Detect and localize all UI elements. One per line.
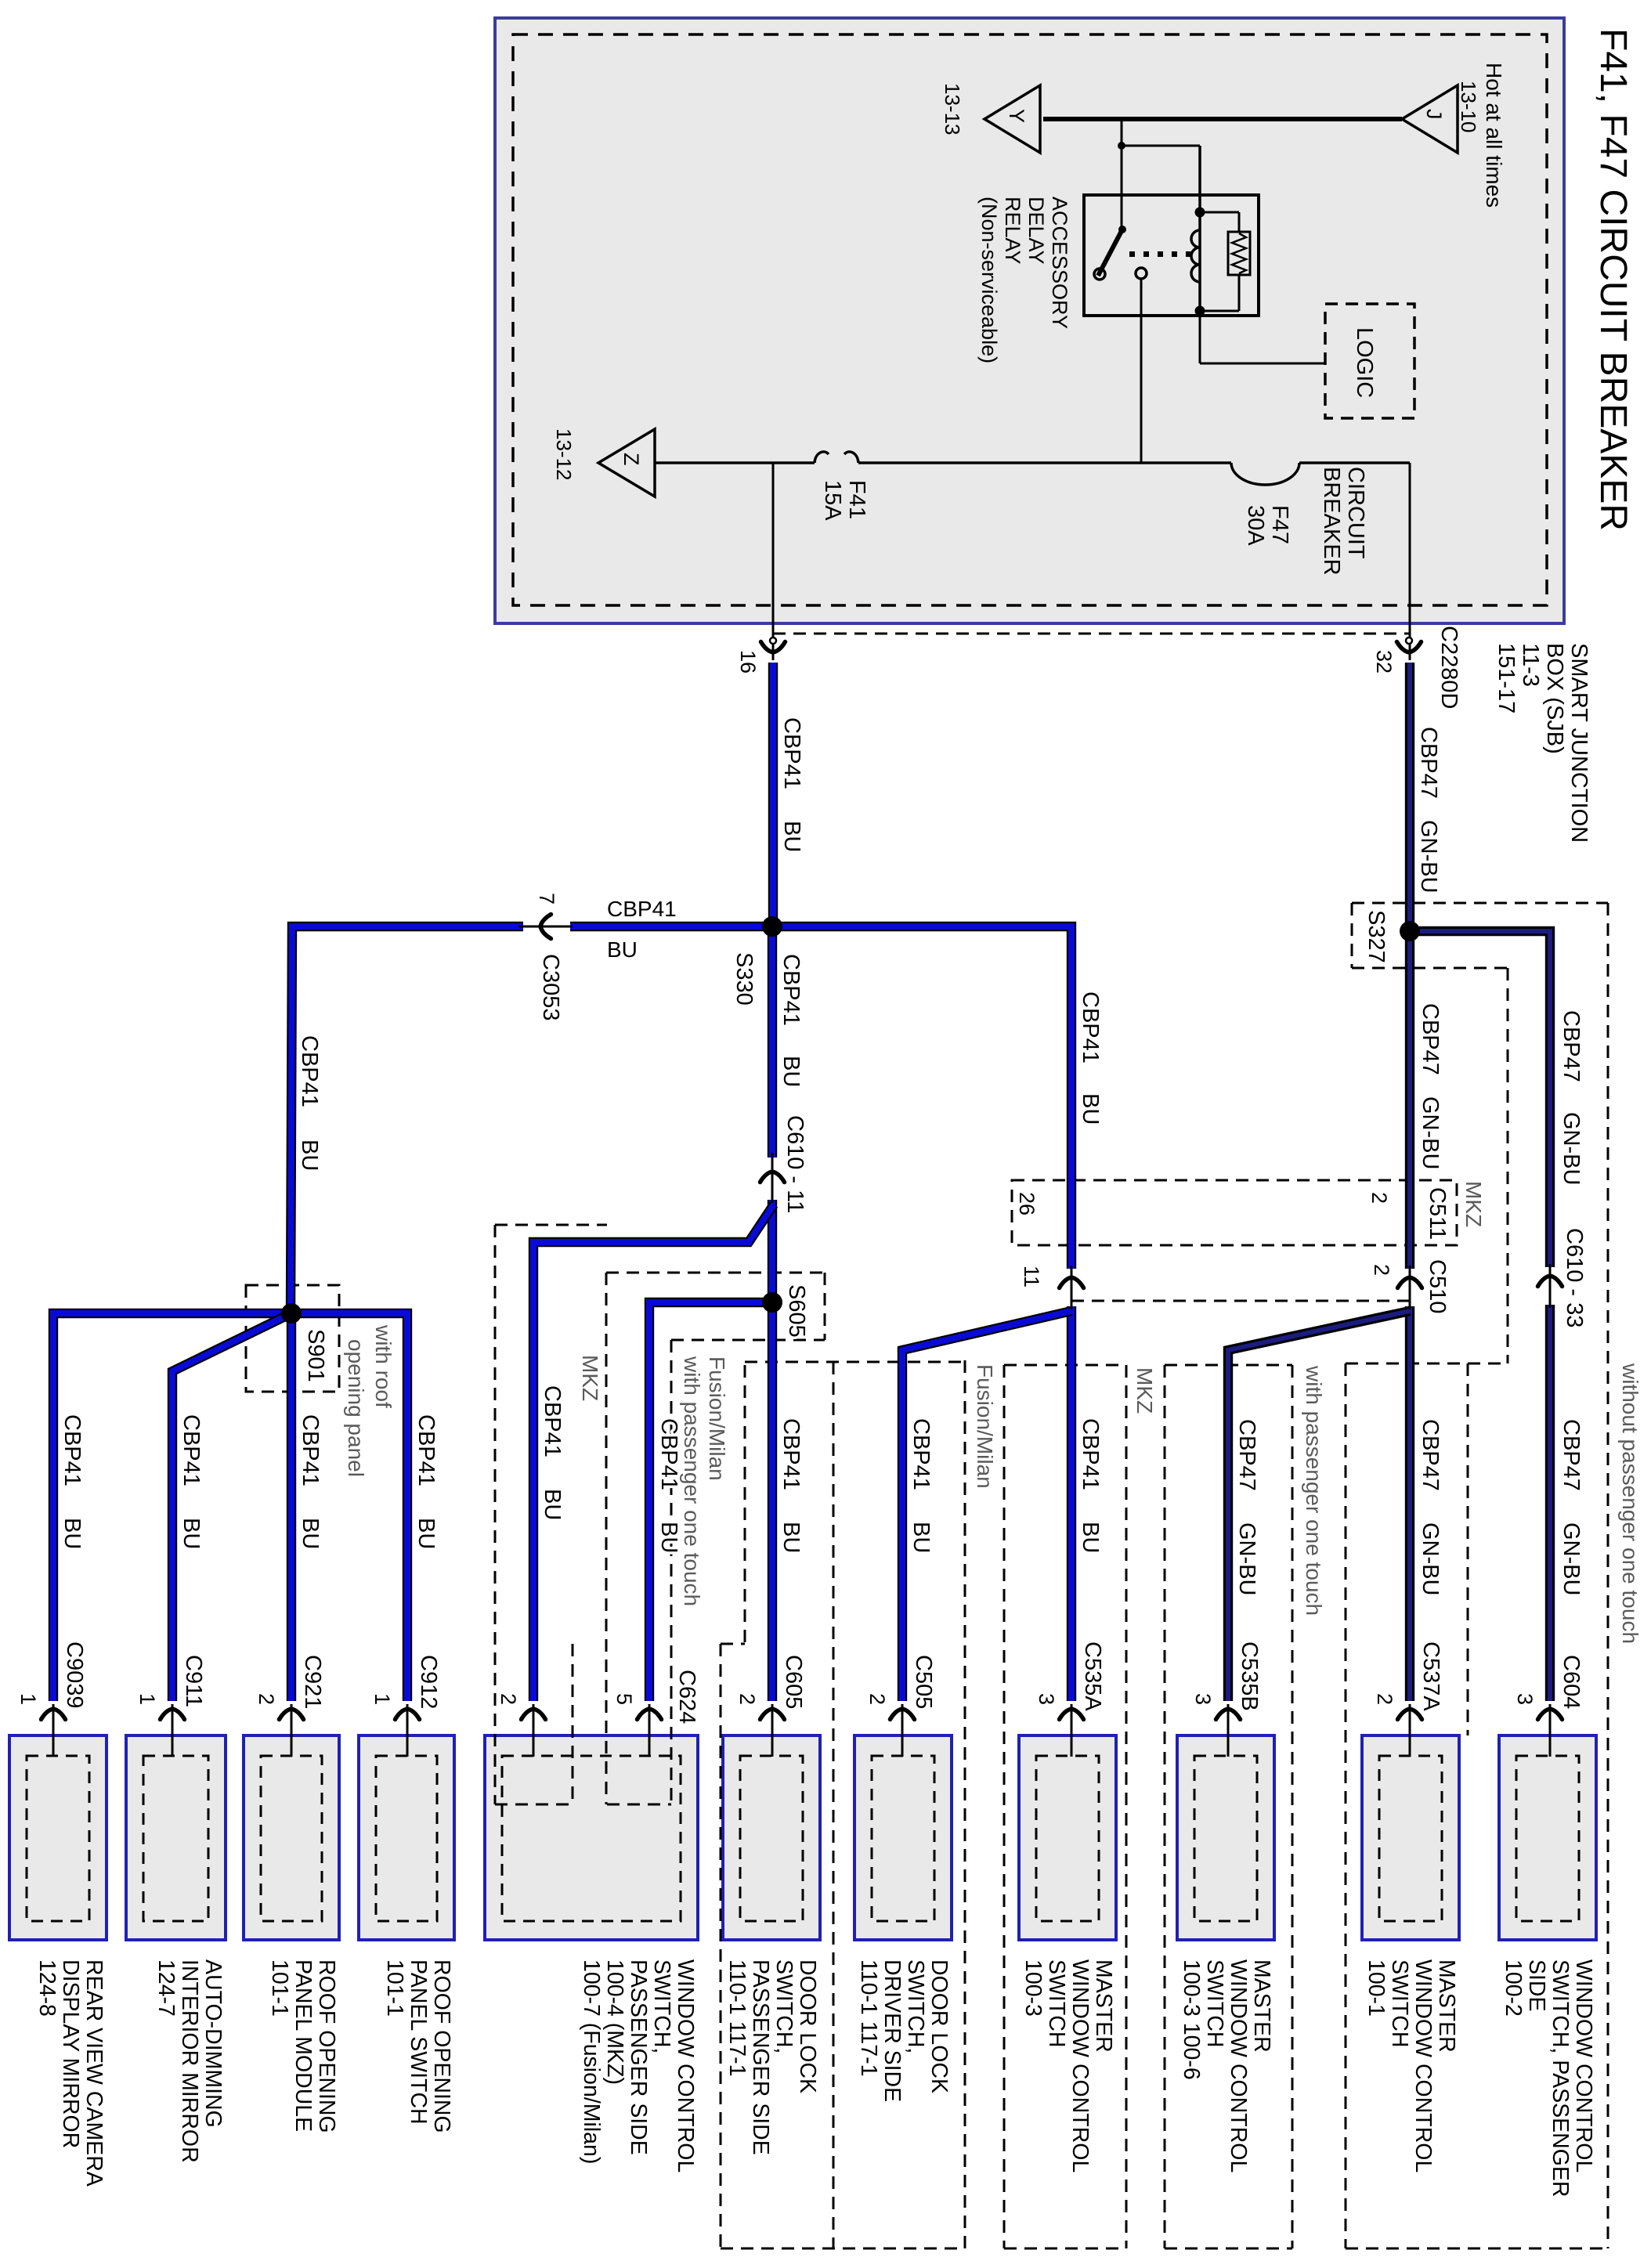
svg-text:26: 26 xyxy=(1015,1192,1039,1215)
svg-text:S330: S330 xyxy=(732,952,757,1006)
svg-text:GN-BU: GN-BU xyxy=(1559,1112,1584,1185)
node S327 xyxy=(1400,921,1420,941)
connector Y triangle 13-13 xyxy=(984,85,1040,153)
Fusion/Milan with passenger one touch group box xyxy=(605,1273,608,1804)
svg-text:2: 2 xyxy=(497,1693,520,1705)
svg-text:S327: S327 xyxy=(1364,910,1389,963)
svg-text:C537A: C537A xyxy=(1418,1641,1443,1711)
relay coil xyxy=(1198,146,1201,311)
window control switch passenger side 100-2 box xyxy=(1499,1735,1596,1940)
connector C2280D boundary xyxy=(773,633,1410,635)
svg-text:1: 1 xyxy=(370,1693,394,1705)
svg-text:101-1: 101-1 xyxy=(267,1959,292,2017)
wire branch to window control switch passenger xyxy=(533,1204,774,1701)
wire from feed to relay coil xyxy=(1122,145,1200,147)
MKZ group box left xyxy=(495,1224,607,1226)
roof opening panel module box xyxy=(244,1735,339,1940)
svg-text:13-12: 13-12 xyxy=(552,428,576,481)
svg-text:C535B: C535B xyxy=(1237,1641,1262,1711)
svg-text:with passenger one touch: with passenger one touch xyxy=(1302,1365,1326,1616)
svg-text:SWITCH,: SWITCH, xyxy=(903,1959,928,2053)
wire S327 to C510 xyxy=(1405,931,1414,1269)
connector C3053 xyxy=(518,926,573,928)
svg-text:100-2: 100-2 xyxy=(1501,1959,1526,2017)
S901 dashed box xyxy=(246,1285,339,1392)
svg-text:C505: C505 xyxy=(911,1655,936,1709)
svg-text:CBP41: CBP41 xyxy=(297,1035,322,1107)
svg-text:2: 2 xyxy=(1367,1192,1391,1204)
svg-text:WINDOW CONTROL: WINDOW CONTROL xyxy=(673,1959,698,2172)
svg-text:F47: F47 xyxy=(1267,505,1292,544)
svg-text:3: 3 xyxy=(1035,1693,1058,1705)
svg-text:C605: C605 xyxy=(781,1655,806,1709)
svg-text:BREAKER: BREAKER xyxy=(1319,467,1344,576)
bottom connector arrows and pins xyxy=(42,1709,66,1720)
svg-text:GN-BU: GN-BU xyxy=(1418,1522,1443,1595)
svg-text:with roof: with roof xyxy=(371,1324,396,1408)
wire S327 right branch xyxy=(1410,931,1550,1267)
fuse F41 15A xyxy=(815,452,829,463)
svg-text:SWITCH,: SWITCH, xyxy=(649,1959,674,2053)
roof opening panel switch box xyxy=(359,1735,454,1940)
svg-text:S605: S605 xyxy=(784,1284,809,1338)
wire S901 to C912 xyxy=(291,1313,407,1701)
svg-text:3: 3 xyxy=(1513,1693,1537,1705)
svg-text:100-3: 100-3 xyxy=(1021,1959,1046,2017)
connector J triangle 13-10 xyxy=(1402,85,1458,153)
wire CBP47 pin32 to S327 xyxy=(1405,663,1414,931)
connector C510 pin 11 xyxy=(1071,1266,1073,1309)
svg-text:CIRCUIT: CIRCUIT xyxy=(1343,467,1368,559)
svg-text:1: 1 xyxy=(16,1693,40,1705)
relay coil suppression resistor xyxy=(1205,211,1239,214)
wire S901 to C921 xyxy=(287,1313,296,1701)
svg-text:DOOR LOCK: DOOR LOCK xyxy=(927,1959,952,2093)
wire S901 to C9039 xyxy=(53,1313,291,1701)
svg-text:C911: C911 xyxy=(181,1655,206,1707)
svg-text:DISPLAY MIRROR: DISPLAY MIRROR xyxy=(58,1959,83,2148)
svg-text:GN-BU: GN-BU xyxy=(1418,1096,1443,1169)
svg-text:CBP47: CBP47 xyxy=(1559,1419,1584,1491)
svg-text:ROOF OPENING: ROOF OPENING xyxy=(314,1959,339,2133)
svg-text:110-1 117-1: 110-1 117-1 xyxy=(856,1959,881,2076)
svg-text:CBP47: CBP47 xyxy=(1234,1419,1259,1491)
svg-text:CBP41: CBP41 xyxy=(607,897,677,921)
S605 dashed box xyxy=(606,1272,825,1274)
svg-text:101-1: 101-1 xyxy=(382,1959,407,2017)
svg-text:CBP41: CBP41 xyxy=(1078,1418,1103,1490)
svg-text:BU: BU xyxy=(1078,1522,1103,1553)
svg-text:J: J xyxy=(1422,109,1446,120)
pin 32 arrow xyxy=(1397,642,1422,653)
SJB pin 32 drop xyxy=(1409,463,1411,660)
svg-text:2: 2 xyxy=(1373,1693,1396,1705)
wire relay coil to logic xyxy=(1199,316,1201,363)
svg-text:Hot at all times: Hot at all times xyxy=(1482,63,1506,208)
svg-text:F41, F47 CIRCUIT BREAKER: F41, F47 CIRCUIT BREAKER xyxy=(1592,28,1634,531)
svg-text:Y: Y xyxy=(1005,109,1028,123)
svg-text:CBP41: CBP41 xyxy=(179,1414,204,1486)
svg-text:Fusion/Milan: Fusion/Milan xyxy=(973,1364,997,1489)
svg-text:SWITCH: SWITCH xyxy=(1202,1959,1227,2047)
auto-dimming interior mirror box xyxy=(126,1735,226,1940)
MKZ group box right xyxy=(1004,1364,1126,1367)
svg-text:AUTO-DIMMING: AUTO-DIMMING xyxy=(201,1959,226,2128)
svg-text:DOOR LOCK: DOOR LOCK xyxy=(795,1959,820,2093)
svg-text:100-1: 100-1 xyxy=(1364,1959,1389,2017)
svg-text:151-17: 151-17 xyxy=(1494,643,1519,713)
svg-text:BU: BU xyxy=(60,1518,85,1549)
door lock switch passenger box xyxy=(723,1735,820,1940)
with passenger one touch group box 2 xyxy=(1346,1363,1508,1365)
svg-text:C624: C624 xyxy=(674,1670,699,1724)
wire C3053 to S330 segment xyxy=(570,922,775,931)
svg-text:GN-BU: GN-BU xyxy=(1559,1522,1584,1595)
svg-text:CBP47: CBP47 xyxy=(1418,1003,1443,1075)
svg-text:GN-BU: GN-BU xyxy=(1234,1522,1259,1595)
relay dotted actuator link xyxy=(1129,251,1135,257)
connector C610-11 xyxy=(771,1153,774,1203)
svg-text:WINDOW CONTROL: WINDOW CONTROL xyxy=(1571,1959,1596,2172)
svg-text:PANEL MODULE: PANEL MODULE xyxy=(291,1959,316,2132)
logic box xyxy=(1325,304,1414,418)
svg-text:GN-BU: GN-BU xyxy=(1416,820,1441,893)
wire from feed to relay switch xyxy=(1121,119,1123,230)
svg-text:SMART JUNCTION: SMART JUNCTION xyxy=(1566,643,1591,843)
accessory delay relay box xyxy=(1084,195,1259,316)
svg-text:CBP41: CBP41 xyxy=(779,717,804,789)
svg-text:C3053: C3053 xyxy=(538,954,563,1020)
master window control switch 100-3 box xyxy=(1019,1735,1116,1940)
svg-text:5: 5 xyxy=(612,1693,636,1705)
svg-text:SIDE: SIDE xyxy=(1524,1959,1549,2012)
svg-text:RELAY: RELAY xyxy=(1001,197,1024,265)
svg-text:CBP41: CBP41 xyxy=(298,1414,323,1486)
svg-text:BU: BU xyxy=(779,821,804,852)
svg-text:BU: BU xyxy=(297,1139,322,1171)
svg-text:30A: 30A xyxy=(1243,505,1268,546)
svg-text:CBP41: CBP41 xyxy=(414,1414,439,1486)
svg-text:WINDOW CONTROL: WINDOW CONTROL xyxy=(1068,1959,1093,2172)
relay switch xyxy=(1094,269,1105,280)
svg-text:CBP41: CBP41 xyxy=(1078,991,1103,1064)
svg-text:C2280D: C2280D xyxy=(1436,626,1461,709)
svg-text:(Non-serviceable): (Non-serviceable) xyxy=(977,197,1001,363)
svg-text:CBP41: CBP41 xyxy=(60,1414,85,1486)
svg-text:ROOF OPENING: ROOF OPENING xyxy=(429,1959,454,2133)
master window control switch 100-1 box xyxy=(1362,1735,1459,1940)
svg-text:C9039: C9039 xyxy=(62,1641,87,1708)
svg-text:S901: S901 xyxy=(303,1329,328,1382)
circuit breaker F47 30A xyxy=(1231,463,1299,485)
rear view camera display mirror box xyxy=(9,1735,107,1940)
svg-text:PANEL SWITCH: PANEL SWITCH xyxy=(406,1959,431,2125)
svg-text:C510: C510 xyxy=(1425,1259,1450,1313)
svg-text:Fusion/Milan: Fusion/Milan xyxy=(705,1356,729,1481)
svg-text:16: 16 xyxy=(736,650,760,674)
svg-text:BU: BU xyxy=(298,1518,323,1549)
svg-text:C610 - 11: C610 - 11 xyxy=(782,1115,807,1213)
master window control switch 100-3 100-6 box xyxy=(1177,1735,1274,1940)
svg-text:C921: C921 xyxy=(300,1655,325,1709)
node S330 xyxy=(762,916,782,937)
svg-text:opening panel: opening panel xyxy=(344,1339,368,1477)
svg-text:BOX (SJB): BOX (SJB) xyxy=(1542,643,1567,754)
svg-text:BU: BU xyxy=(909,1522,934,1553)
svg-text:WINDOW CONTROL: WINDOW CONTROL xyxy=(1226,1959,1251,2172)
svg-text:BU: BU xyxy=(1078,1093,1103,1125)
wire C610-11 to S605 xyxy=(768,1200,777,1701)
MKZ C511 dashed box xyxy=(1012,1180,1457,1245)
svg-text:PASSENGER SIDE: PASSENGER SIDE xyxy=(748,1959,773,2155)
door lock switch driver box xyxy=(854,1735,952,1940)
svg-text:REAR VIEW CAMERA: REAR VIEW CAMERA xyxy=(81,1959,107,2187)
svg-text:MKZ: MKZ xyxy=(1133,1367,1157,1414)
svg-text:C535A: C535A xyxy=(1080,1641,1105,1711)
svg-text:2: 2 xyxy=(735,1693,759,1705)
svg-text:BU: BU xyxy=(540,1489,565,1520)
svg-text:F41: F41 xyxy=(844,480,869,519)
svg-text:BU: BU xyxy=(179,1518,204,1549)
svg-text:CBP41: CBP41 xyxy=(779,954,804,1026)
svg-text:SWITCH,: SWITCH, xyxy=(771,1959,797,2053)
svg-text:15A: 15A xyxy=(820,480,845,521)
svg-text:BU: BU xyxy=(779,1522,804,1553)
wire C510 to C537A xyxy=(1405,1306,1414,1701)
svg-text:11: 11 xyxy=(1020,1266,1043,1287)
svg-text:SWITCH, PASSENGER: SWITCH, PASSENGER xyxy=(1548,1959,1573,2198)
svg-text:CBP41: CBP41 xyxy=(909,1418,934,1490)
wire branch to C535B xyxy=(1228,1311,1410,1701)
svg-text:100-3 100-6: 100-3 100-6 xyxy=(1179,1959,1204,2080)
connector C510 pin 2 xyxy=(1071,1300,1410,1302)
svg-text:C912: C912 xyxy=(416,1655,441,1709)
svg-text:C604: C604 xyxy=(1559,1655,1584,1709)
svg-text:3: 3 xyxy=(1191,1693,1215,1705)
svg-text:CBP41: CBP41 xyxy=(540,1385,565,1457)
svg-text:PASSENGER SIDE: PASSENGER SIDE xyxy=(626,1959,651,2155)
svg-text:without passenger one touch: without passenger one touch xyxy=(1618,1363,1642,1644)
svg-text:MASTER: MASTER xyxy=(1249,1959,1274,2053)
svg-text:MASTER: MASTER xyxy=(1434,1959,1459,2053)
svg-text:SWITCH: SWITCH xyxy=(1387,1959,1412,2047)
svg-text:11-3: 11-3 xyxy=(1518,643,1543,687)
wire S330 right branch xyxy=(772,926,1071,1269)
svg-text:100-7 (Fusion/Milan): 100-7 (Fusion/Milan) xyxy=(579,1959,604,2164)
svg-text:CBP47: CBP47 xyxy=(1416,727,1441,799)
wire S330 to C3053 branch xyxy=(291,926,523,1313)
svg-text:with passenger one touch: with passenger one touch xyxy=(680,1356,704,1606)
svg-text:MKZ: MKZ xyxy=(1461,1181,1486,1227)
svg-text:2: 2 xyxy=(255,1693,278,1705)
power feed line from connector J to Y xyxy=(1043,117,1402,121)
smart junction box (SJB) outline xyxy=(495,18,1564,623)
S327 dashed box xyxy=(1352,902,1608,905)
wire C510-11 to C535A xyxy=(1067,1306,1076,1701)
fused feed line xyxy=(655,461,815,464)
svg-text:C511: C511 xyxy=(1425,1187,1450,1240)
connector C610-33 xyxy=(1549,1264,1552,1308)
svg-text:ACCESSORY: ACCESSORY xyxy=(1048,197,1071,329)
svg-text:2: 2 xyxy=(1370,1264,1393,1276)
svg-text:DELAY: DELAY xyxy=(1024,197,1048,265)
svg-text:CBP47: CBP47 xyxy=(1559,1010,1584,1082)
svg-text:13-10: 13-10 xyxy=(1457,81,1480,133)
connector Z triangle 13-12 xyxy=(598,429,655,497)
wire branch to C505 xyxy=(902,1311,1071,1701)
svg-text:124-8: 124-8 xyxy=(34,1959,60,2017)
svg-text:1: 1 xyxy=(135,1693,159,1705)
pin 16 arrow xyxy=(761,642,786,653)
svg-text:DRIVER SIDE: DRIVER SIDE xyxy=(880,1959,905,2102)
svg-text:13-13: 13-13 xyxy=(941,83,964,135)
SJB pin 16 drop xyxy=(772,463,775,660)
svg-text:BU: BU xyxy=(414,1518,439,1549)
wire C610-33 to C604 xyxy=(1545,1305,1555,1701)
svg-text:32: 32 xyxy=(1372,650,1396,674)
wire S605 to C624 xyxy=(649,1302,772,1701)
svg-text:100-4 (MKZ): 100-4 (MKZ) xyxy=(602,1959,627,2085)
svg-text:MASTER: MASTER xyxy=(1091,1959,1116,2053)
svg-text:MKZ: MKZ xyxy=(578,1355,602,1401)
svg-text:110-1 117-1: 110-1 117-1 xyxy=(724,1959,750,2076)
svg-text:CBP41: CBP41 xyxy=(656,1418,681,1490)
relay switch output drop xyxy=(1140,279,1143,463)
with passenger one touch group box 1 xyxy=(1165,1364,1292,1367)
Fusion/Milan group box xyxy=(744,1365,746,1644)
svg-text:WINDOW CONTROL: WINDOW CONTROL xyxy=(1411,1959,1436,2172)
svg-text:LOGIC: LOGIC xyxy=(1352,327,1377,398)
svg-text:BU: BU xyxy=(656,1522,681,1553)
svg-text:BU: BU xyxy=(779,1056,804,1087)
wire CBP41 pin16 to S330 xyxy=(768,663,778,926)
node S605 xyxy=(762,1292,782,1313)
wire S330 down to C610-11 xyxy=(768,926,777,1157)
svg-text:INTERIOR MIRROR: INTERIOR MIRROR xyxy=(177,1959,202,2163)
svg-text:SWITCH: SWITCH xyxy=(1044,1959,1069,2047)
svg-text:BU: BU xyxy=(607,937,638,962)
svg-text:2: 2 xyxy=(865,1693,889,1705)
wire S901 to C911 xyxy=(172,1313,291,1701)
svg-text:Z: Z xyxy=(620,453,643,466)
node S901 xyxy=(281,1303,302,1324)
svg-text:C610 - 33: C610 - 33 xyxy=(1562,1228,1587,1327)
svg-text:CBP47: CBP47 xyxy=(1418,1419,1443,1491)
svg-text:7: 7 xyxy=(535,893,558,905)
svg-text:CBP41: CBP41 xyxy=(779,1418,804,1490)
window control switch passenger box xyxy=(485,1735,698,1940)
svg-text:124-7: 124-7 xyxy=(154,1959,179,2017)
